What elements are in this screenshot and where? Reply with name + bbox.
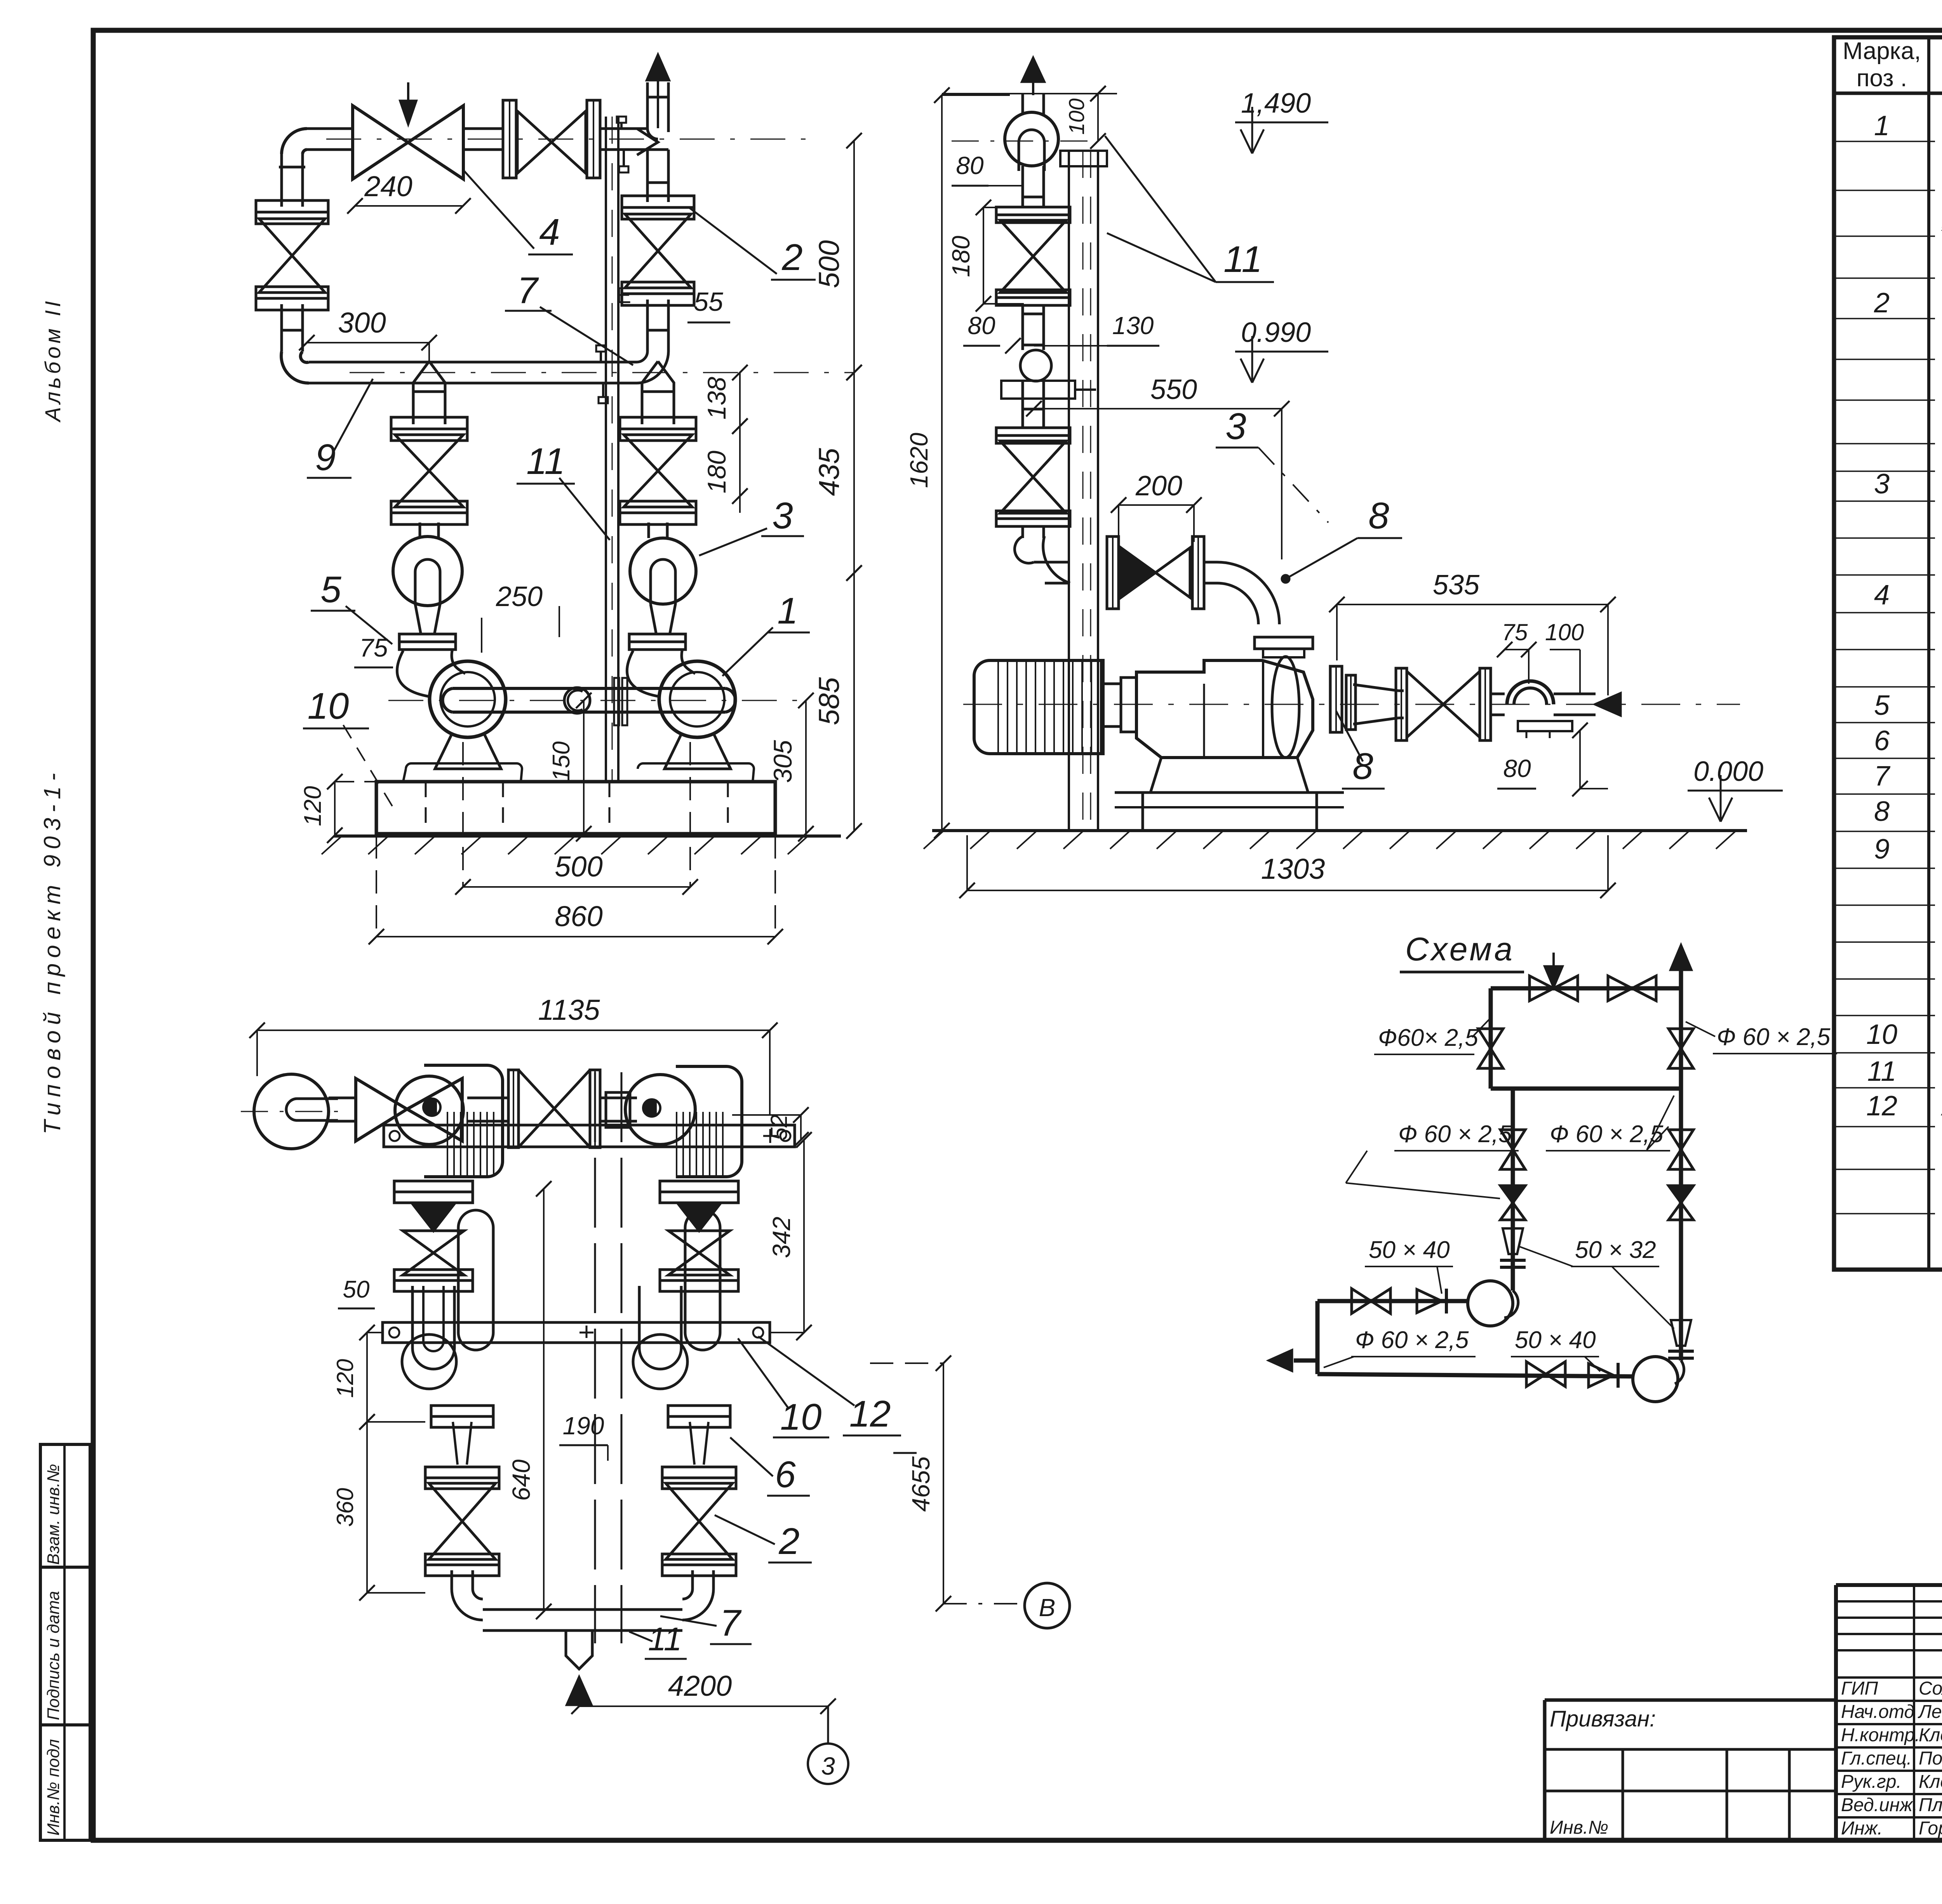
svg-text:138: 138 bbox=[702, 377, 731, 420]
front pump2 casing bbox=[659, 661, 735, 737]
svg-text:7: 7 bbox=[1874, 761, 1891, 792]
schema check S12 bbox=[1589, 1364, 1613, 1387]
side pump feet bbox=[1143, 758, 1317, 831]
schema reducer R1 bbox=[1503, 1228, 1523, 1254]
side check valve bbox=[1121, 548, 1155, 598]
plan branch1 valve bbox=[425, 1467, 499, 1478]
side pipe d bbox=[1021, 526, 1024, 538]
svg-text:8: 8 bbox=[1874, 796, 1890, 827]
svg-text:3: 3 bbox=[772, 495, 793, 537]
schema pump P2 bbox=[1633, 1357, 1678, 1402]
svg-text:9: 9 bbox=[315, 437, 336, 478]
side pipe a bbox=[1021, 166, 1024, 207]
plan branch2 flange3 bbox=[668, 1406, 730, 1416]
svg-text:Подпись и дата: Подпись и дата bbox=[44, 1591, 63, 1720]
svg-text:Клоков: Клоков bbox=[1919, 1772, 1942, 1792]
schema left riser bbox=[1316, 1301, 1320, 1374]
schema valve S5 bbox=[1669, 1130, 1693, 1169]
schema valve S3 bbox=[1478, 1029, 1503, 1068]
front pedestal right bbox=[665, 734, 731, 769]
side elbow to horizontal bbox=[1015, 536, 1070, 583]
svg-text:10: 10 bbox=[1866, 1019, 1897, 1050]
front pos4 leader bbox=[464, 171, 534, 249]
schema left drop bbox=[1489, 988, 1493, 1089]
plan pos11 leader bbox=[629, 1632, 653, 1641]
svg-text:8: 8 bbox=[1368, 495, 1389, 537]
svg-text:180: 180 bbox=[702, 451, 731, 493]
plan dim 342 bbox=[803, 1140, 805, 1333]
plan motor 1 bbox=[424, 1065, 503, 1177]
side dim 200 bbox=[1119, 504, 1194, 506]
plan branch1 checkvalve bbox=[412, 1203, 455, 1231]
svg-text:1303: 1303 bbox=[1261, 853, 1325, 885]
front pump1 casing bbox=[430, 661, 506, 737]
schema pump P1 bbox=[1468, 1281, 1513, 1326]
schema inlet stub bbox=[1294, 1359, 1317, 1363]
side suction reducer bbox=[1353, 685, 1398, 724]
side dim 550 bbox=[1034, 408, 1282, 409]
plan strip A bbox=[384, 1125, 795, 1147]
side top bend circle bbox=[1005, 112, 1058, 166]
schema suction line P1 bbox=[1317, 1299, 1469, 1303]
side suction valve bbox=[1396, 668, 1407, 740]
front right valve2 bbox=[622, 196, 694, 207]
schema right main bbox=[1679, 988, 1683, 1360]
svg-text:Гл.спец.: Гл.спец. bbox=[1841, 1748, 1912, 1769]
svg-text:6: 6 bbox=[775, 1454, 796, 1495]
schema valve S2 bbox=[1608, 976, 1656, 1001]
schema branch drop bbox=[1511, 1089, 1515, 1270]
plan branch2 flange bbox=[660, 1181, 738, 1192]
side riser pipe bbox=[1021, 94, 1024, 115]
schema bottom line bbox=[1317, 1374, 1634, 1376]
front boss top bbox=[620, 123, 623, 129]
front dim 860 bbox=[376, 936, 775, 937]
svg-text:ГИП: ГИП bbox=[1841, 1678, 1878, 1699]
svg-text:52: 52 bbox=[766, 1115, 792, 1141]
svg-text:Нач.отд: Нач.отд bbox=[1841, 1702, 1914, 1722]
svg-text:10: 10 bbox=[308, 685, 349, 727]
svg-text:500: 500 bbox=[813, 240, 845, 288]
svg-text:55: 55 bbox=[694, 287, 723, 317]
svg-text:120: 120 bbox=[332, 1359, 358, 1398]
front left pipe bbox=[280, 304, 283, 352]
svg-text:2: 2 bbox=[1874, 287, 1890, 319]
plan branch2 checkvalve bbox=[677, 1203, 721, 1231]
svg-text:360: 360 bbox=[332, 1488, 358, 1527]
svg-text:Рук.гр.: Рук.гр. bbox=[1841, 1772, 1902, 1792]
svg-text:Инж.: Инж. bbox=[1841, 1818, 1883, 1839]
front pos1 leader bbox=[722, 627, 773, 676]
svg-text:7: 7 bbox=[720, 1602, 742, 1644]
side coupling bbox=[1103, 684, 1121, 726]
front mid pipe bbox=[309, 361, 637, 364]
svg-text:11: 11 bbox=[1867, 1056, 1897, 1087]
plan dim 640 bbox=[543, 1189, 545, 1611]
svg-text:4: 4 bbox=[539, 211, 560, 253]
svg-text:Ф 60 × 2,5: Ф 60 × 2,5 bbox=[1355, 1327, 1469, 1354]
svg-text:12: 12 bbox=[1866, 1090, 1897, 1122]
svg-text:3: 3 bbox=[821, 1752, 835, 1780]
svg-text:Е: Е bbox=[616, 283, 631, 308]
svg-text:250: 250 bbox=[496, 581, 543, 612]
schema check S10 bbox=[1417, 1289, 1442, 1313]
svg-text:190: 190 bbox=[563, 1412, 604, 1440]
side end loop bbox=[1507, 681, 1554, 704]
plan loop circle 1 bbox=[254, 1074, 329, 1149]
svg-text:5: 5 bbox=[320, 569, 341, 610]
svg-text:Марка,: Марка, bbox=[1843, 38, 1921, 64]
svg-text:500: 500 bbox=[555, 850, 602, 883]
svg-text:Ал.I лист ТМ-17: Ал.I лист ТМ-17 bbox=[1940, 1094, 1942, 1121]
plan dim 1135 bbox=[257, 1030, 770, 1031]
schema outlet arrow bbox=[1671, 946, 1691, 970]
side support column bbox=[1068, 151, 1070, 831]
side check flange R bbox=[1192, 537, 1204, 609]
schema valve S9 bbox=[1352, 1289, 1390, 1313]
svg-text:Инв.№: Инв.№ bbox=[1550, 1817, 1608, 1838]
side valve upper bbox=[996, 207, 1070, 215]
table grid bbox=[1834, 37, 1942, 1270]
svg-text:860: 860 bbox=[555, 900, 602, 932]
svg-text:11: 11 bbox=[1223, 239, 1262, 280]
front dim 240 bbox=[355, 205, 463, 207]
side pipe b bbox=[1021, 305, 1024, 350]
svg-text:Инв.№ подл: Инв.№ подл bbox=[44, 1739, 63, 1836]
svg-text:11: 11 bbox=[648, 1621, 682, 1657]
front pos5 leader bbox=[346, 606, 392, 644]
front top pipe bbox=[307, 127, 353, 130]
plan strip B bbox=[383, 1322, 770, 1343]
svg-text:640: 640 bbox=[507, 1459, 535, 1501]
front dim 435v bbox=[853, 373, 855, 573]
svg-text:1: 1 bbox=[1874, 110, 1890, 141]
svg-text:Соловьев: Соловьев bbox=[1919, 1678, 1942, 1699]
plan gate valve mid bbox=[508, 1070, 519, 1148]
front left branch valve bbox=[391, 417, 467, 429]
svg-text:2: 2 bbox=[778, 1521, 799, 1562]
plan bottom header bbox=[483, 1608, 682, 1611]
plan branch1 flange2 bbox=[394, 1270, 473, 1280]
front dim 150 bbox=[583, 700, 585, 834]
svg-text:5: 5 bbox=[1874, 690, 1890, 721]
front suction header bbox=[452, 687, 726, 690]
side riser arrow bbox=[1022, 58, 1044, 82]
plan pos12 leader bbox=[758, 1336, 854, 1406]
side check flange L bbox=[1107, 537, 1119, 609]
svg-text:Взам. инв.№: Взам. инв.№ bbox=[44, 1464, 63, 1565]
plan branch2 ubend bbox=[639, 1286, 681, 1369]
svg-text:50 × 40: 50 × 40 bbox=[1369, 1237, 1450, 1263]
svg-text:1135: 1135 bbox=[538, 994, 600, 1026]
front pos2 leader bbox=[689, 208, 777, 274]
plan branch2 valve bbox=[662, 1467, 736, 1478]
side discharge flange bbox=[1255, 637, 1313, 649]
title block signature rows bbox=[1913, 1585, 1915, 1840]
plan cylinder 1 bbox=[458, 1210, 493, 1350]
front dim 585v bbox=[853, 573, 855, 831]
svg-text:Ф60× 2,5: Ф60× 2,5 bbox=[1378, 1024, 1478, 1051]
svg-text:80: 80 bbox=[968, 312, 995, 340]
svg-text:Плинер: Плинер bbox=[1919, 1795, 1942, 1815]
schema union U1 bbox=[1500, 1259, 1526, 1262]
schema valve S11 bbox=[1526, 1362, 1565, 1387]
front boss mid bbox=[600, 352, 602, 362]
plan pos2 leader bbox=[715, 1515, 775, 1544]
svg-text:180: 180 bbox=[947, 235, 975, 277]
plan section B circle bbox=[1025, 1583, 1070, 1628]
svg-text:300: 300 bbox=[338, 307, 386, 339]
schema valve S4 bbox=[1669, 1029, 1693, 1068]
svg-text:Альбом II: Альбом II bbox=[40, 298, 65, 423]
svg-text:150: 150 bbox=[548, 741, 575, 781]
front top pipe centerline bbox=[326, 139, 808, 140]
side valve lower bbox=[996, 428, 1070, 435]
front inlet arrow bbox=[407, 82, 409, 102]
plan branch1 flange bbox=[394, 1181, 473, 1192]
svg-text:Клоков: Клоков bbox=[1919, 1725, 1942, 1745]
schema loop bottom bbox=[1491, 1087, 1681, 1091]
schema top pipe bbox=[1491, 986, 1681, 991]
svg-text:10: 10 bbox=[780, 1396, 822, 1438]
plan branch1 ubend bbox=[412, 1286, 454, 1369]
svg-text:11: 11 bbox=[526, 441, 565, 482]
svg-text:2: 2 bbox=[781, 237, 802, 278]
schema check S8 bbox=[1500, 1186, 1525, 1203]
plan check valve 1 bbox=[356, 1078, 407, 1141]
side dim 100 bbox=[1097, 94, 1099, 141]
front right branch stub bbox=[642, 361, 674, 424]
plan dim 120 bbox=[366, 1333, 368, 1422]
svg-text:1: 1 bbox=[777, 590, 798, 632]
svg-text:4200: 4200 bbox=[668, 1670, 732, 1702]
side offset circle bbox=[1020, 350, 1051, 381]
svg-text:6: 6 bbox=[1874, 725, 1890, 756]
plan pos6 leader bbox=[730, 1437, 773, 1476]
side pump casing bbox=[1136, 660, 1313, 758]
svg-text:Ф 60 × 2,5: Ф 60 × 2,5 bbox=[1398, 1121, 1512, 1148]
plan section 3 circle bbox=[827, 1706, 829, 1744]
front dim 300 bbox=[307, 342, 429, 343]
front right mid elbow bbox=[637, 352, 668, 383]
side dim 180 bbox=[983, 207, 984, 304]
schema check S6 bbox=[1669, 1186, 1693, 1203]
plan pos10 leader bbox=[738, 1338, 788, 1408]
front pos11 leader bbox=[559, 478, 610, 540]
side pipe e bbox=[1204, 561, 1217, 564]
svg-text:4655: 4655 bbox=[907, 1456, 935, 1512]
front right branch valve bbox=[620, 417, 696, 429]
svg-text:435: 435 bbox=[813, 448, 845, 496]
side dim 1303 bbox=[967, 890, 1608, 891]
svg-text:Н.контр.: Н.контр. bbox=[1841, 1725, 1920, 1745]
front dim 500b bbox=[463, 886, 690, 888]
plan branch1 flange3 bbox=[431, 1406, 493, 1416]
plan column bbox=[594, 1072, 596, 1643]
svg-text:Лепендин: Лепендин bbox=[1918, 1702, 1942, 1722]
front pos10 leader bbox=[342, 723, 392, 806]
svg-text:50 × 32: 50 × 32 bbox=[1575, 1237, 1656, 1263]
svg-text:50: 50 bbox=[343, 1276, 370, 1303]
front branch stub bbox=[413, 361, 445, 424]
front left volute bbox=[393, 537, 462, 606]
svg-text:342: 342 bbox=[767, 1217, 795, 1258]
svg-text:3: 3 bbox=[1874, 469, 1890, 500]
plan volute 1 bbox=[395, 1076, 463, 1144]
svg-text:200: 200 bbox=[1135, 470, 1182, 502]
plan cylinder 2 bbox=[685, 1210, 720, 1350]
svg-text:550: 550 bbox=[1150, 374, 1197, 405]
plan pos7 leader bbox=[660, 1616, 717, 1626]
side elbow down bbox=[1217, 562, 1279, 624]
front ground hatch bbox=[334, 834, 841, 838]
front elbow left-mid bbox=[281, 352, 309, 383]
side inlet arrow bbox=[1596, 693, 1620, 715]
svg-text:75: 75 bbox=[1502, 619, 1528, 645]
front pos7 leader bbox=[540, 307, 633, 365]
svg-text:В: В bbox=[1039, 1594, 1056, 1622]
svg-text:80: 80 bbox=[956, 152, 984, 179]
front valve pos4 bbox=[353, 106, 463, 179]
plan motor 2 bbox=[676, 1066, 742, 1177]
svg-text:Типовой проект 903-1-: Типовой проект 903-1- bbox=[39, 768, 65, 1134]
plan branch2 flange2 bbox=[660, 1270, 738, 1280]
svg-text:Горшунова: Горшунова bbox=[1919, 1818, 1942, 1839]
plan loop circle 2 bbox=[625, 1075, 695, 1144]
svg-text:Портной: Портной bbox=[1919, 1748, 1942, 1769]
front right volute bbox=[630, 538, 696, 604]
svg-text:Схема: Схема bbox=[1405, 931, 1515, 967]
schema reducer R2 bbox=[1671, 1320, 1691, 1346]
front dim 500v bbox=[853, 141, 855, 373]
schema inlet arrow bbox=[1552, 953, 1555, 973]
svg-text:7: 7 bbox=[517, 270, 539, 311]
plan bottom stub bbox=[566, 1631, 592, 1669]
svg-text:12: 12 bbox=[849, 1393, 891, 1435]
side pipe c bbox=[1021, 381, 1024, 428]
front dim 138 bbox=[739, 373, 741, 426]
front dim 305 bbox=[805, 700, 807, 834]
svg-text:535: 535 bbox=[1433, 570, 1480, 601]
svg-text:Ф 60 × 2,5: Ф 60 × 2,5 bbox=[1550, 1121, 1664, 1148]
svg-text:100: 100 bbox=[1545, 619, 1584, 645]
front support column bbox=[605, 117, 607, 782]
side dim 1620 bbox=[941, 95, 943, 831]
schema valve S7 bbox=[1500, 1130, 1525, 1169]
svg-text:50 × 40: 50 × 40 bbox=[1515, 1327, 1596, 1354]
front elbow top-left bbox=[282, 129, 307, 154]
svg-text:0.000: 0.000 bbox=[1693, 756, 1763, 787]
svg-text:9: 9 bbox=[1874, 834, 1890, 865]
side suction pipe bbox=[1491, 693, 1505, 695]
svg-text:1620: 1620 bbox=[905, 432, 933, 488]
plan branch2 elbow bbox=[682, 1570, 713, 1620]
left stamp column bbox=[40, 1444, 90, 1840]
side dim 535 bbox=[1337, 604, 1608, 605]
front valve top small bbox=[503, 100, 516, 178]
side ground hatch bbox=[932, 829, 1747, 832]
side shaft centerline bbox=[963, 704, 1740, 705]
svg-text:120: 120 bbox=[299, 786, 326, 826]
front right pipe bbox=[646, 150, 649, 202]
svg-text:8: 8 bbox=[1352, 746, 1373, 787]
front right pipe2 bbox=[646, 300, 649, 352]
schema union U2 bbox=[1668, 1350, 1694, 1353]
plan branch1 elbow bbox=[452, 1570, 483, 1620]
front left valve bbox=[256, 200, 328, 212]
svg-text:80: 80 bbox=[1503, 754, 1531, 782]
front dim 180 bbox=[739, 426, 741, 496]
svg-text:4: 4 bbox=[1874, 580, 1890, 611]
front right top elbow bbox=[647, 128, 668, 139]
front baseplate bbox=[376, 782, 775, 834]
svg-text:130: 130 bbox=[1112, 312, 1154, 340]
plan dim 4200 bbox=[579, 1705, 828, 1707]
title block outline bbox=[1836, 1583, 1942, 1587]
side motor bbox=[974, 660, 1103, 754]
front pedestal left bbox=[435, 734, 501, 769]
plan bottom arrow bbox=[567, 1678, 591, 1705]
svg-text:Вед.инж.: Вед.инж. bbox=[1841, 1795, 1918, 1815]
svg-text:3: 3 bbox=[1225, 406, 1246, 447]
svg-text:240: 240 bbox=[364, 170, 412, 202]
svg-text:585: 585 bbox=[813, 677, 845, 725]
plan dim 360 bbox=[366, 1422, 368, 1593]
side suction flange pair bbox=[1330, 666, 1342, 732]
front right riser arrow bbox=[647, 55, 669, 80]
svg-text:305: 305 bbox=[768, 740, 797, 783]
front pos3 leader bbox=[699, 528, 767, 556]
plan dim 4655 bbox=[943, 1363, 944, 1604]
svg-text:Привязан:: Привязан: bbox=[1550, 1706, 1656, 1732]
front right pipe upper bbox=[646, 82, 649, 128]
front pos9 leader bbox=[334, 379, 373, 451]
svg-text:поз .: поз . bbox=[1857, 65, 1907, 92]
svg-text:Ф 60 × 2,5: Ф 60 × 2,5 bbox=[1717, 1024, 1831, 1050]
front dim 120 bbox=[334, 782, 336, 835]
front header fitting bbox=[564, 688, 590, 713]
svg-text:100: 100 bbox=[1064, 98, 1089, 134]
schema valve S1 bbox=[1530, 976, 1578, 1001]
plan dim 52 bbox=[800, 1115, 802, 1140]
